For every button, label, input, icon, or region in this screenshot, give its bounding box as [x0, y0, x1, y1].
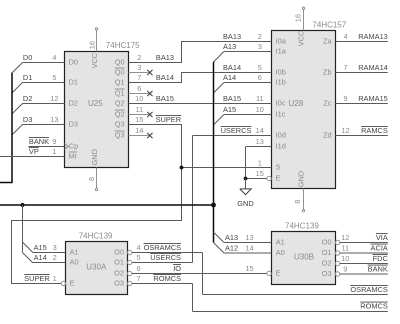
svg-text:Mr: Mr [69, 152, 78, 161]
svg-text:I0c: I0c [276, 99, 286, 108]
svg-text:Q2: Q2 [115, 99, 125, 108]
svg-text:Q0: Q0 [115, 68, 125, 77]
svg-text:RAMCS: RAMCS [361, 126, 388, 135]
svg-text:11: 11 [135, 105, 143, 114]
svg-text:13: 13 [50, 115, 58, 124]
svg-text:ROMCS: ROMCS [153, 274, 181, 283]
svg-text:O1: O1 [114, 258, 124, 267]
svg-text:7: 7 [344, 63, 348, 72]
svg-text:VIA: VIA [376, 233, 388, 242]
svg-text:I0a: I0a [276, 37, 287, 46]
svg-text:12: 12 [341, 233, 349, 242]
svg-text:A0: A0 [70, 258, 79, 267]
svg-text:D3: D3 [23, 115, 32, 124]
svg-text:Q3: Q3 [115, 120, 125, 129]
svg-text:12: 12 [50, 94, 58, 103]
svg-text:5: 5 [136, 253, 140, 262]
svg-text:D0: D0 [23, 53, 32, 62]
svg-text:14: 14 [135, 126, 143, 135]
svg-text:ACIA: ACIA [371, 244, 388, 253]
svg-text:I1d: I1d [276, 142, 286, 151]
svg-text:Zc: Zc [323, 99, 332, 108]
svg-text:8: 8 [293, 200, 302, 204]
svg-text:2: 2 [137, 53, 141, 62]
svg-text:3: 3 [53, 243, 57, 252]
svg-text:15: 15 [256, 169, 264, 178]
svg-text:A15: A15 [223, 105, 236, 114]
svg-text:O0: O0 [322, 238, 332, 247]
svg-text:ROMCS: ROMCS [360, 302, 388, 311]
svg-text:D2: D2 [69, 99, 78, 108]
svg-text:3: 3 [137, 63, 141, 72]
svg-text:A14: A14 [34, 253, 47, 262]
svg-text:A12: A12 [225, 244, 238, 253]
svg-text:74HC139: 74HC139 [79, 231, 113, 240]
svg-text:I1c: I1c [276, 110, 286, 119]
svg-text:I0b: I0b [276, 68, 286, 77]
svg-text:GND: GND [237, 199, 253, 208]
svg-text:D0: D0 [69, 58, 78, 67]
svg-text:E: E [276, 174, 281, 183]
svg-text:A14: A14 [223, 73, 236, 82]
svg-text:VCC: VCC [297, 30, 306, 46]
svg-text:D2: D2 [23, 94, 32, 103]
svg-text:SUPER: SUPER [156, 115, 181, 124]
svg-text:Q1: Q1 [115, 89, 125, 98]
svg-text:Q0: Q0 [115, 58, 125, 67]
svg-text:SUPER: SUPER [24, 274, 49, 283]
svg-text:U30B: U30B [294, 253, 314, 262]
svg-text:Zd: Zd [323, 131, 332, 140]
svg-text:14: 14 [245, 244, 253, 253]
svg-text:S: S [276, 163, 281, 172]
svg-text:D3: D3 [69, 120, 78, 129]
svg-text:6: 6 [258, 73, 262, 82]
svg-text:Cp: Cp [69, 142, 78, 151]
svg-text:O1: O1 [322, 248, 332, 257]
svg-text:4: 4 [52, 53, 56, 62]
svg-text:5: 5 [52, 73, 56, 82]
svg-text:O2: O2 [114, 269, 124, 278]
svg-text:RAMA13: RAMA13 [358, 32, 388, 41]
svg-text:D1: D1 [23, 73, 32, 82]
svg-text:2: 2 [53, 253, 57, 262]
svg-text:RAMA14: RAMA14 [358, 63, 388, 72]
svg-text:Zb: Zb [323, 68, 332, 77]
svg-text:BA15: BA15 [156, 94, 174, 103]
svg-text:74HC139: 74HC139 [285, 222, 319, 231]
svg-text:9: 9 [343, 265, 347, 274]
svg-text:4: 4 [344, 32, 348, 41]
svg-text:1: 1 [258, 159, 262, 168]
svg-text:1: 1 [52, 147, 56, 156]
svg-text:IO: IO [173, 264, 181, 273]
svg-text:16: 16 [293, 14, 302, 22]
svg-text:74HC175: 74HC175 [106, 41, 140, 50]
svg-text:O2: O2 [322, 259, 332, 268]
svg-text:U30A: U30A [86, 262, 107, 271]
svg-text:O3: O3 [322, 269, 332, 278]
svg-text:I0d: I0d [276, 131, 286, 140]
svg-text:4: 4 [136, 243, 140, 252]
svg-text:VP: VP [29, 147, 39, 156]
svg-text:A0: A0 [276, 248, 285, 257]
svg-text:11: 11 [256, 94, 264, 103]
svg-text:10: 10 [256, 105, 264, 114]
svg-text:Q3: Q3 [115, 131, 125, 140]
svg-text:12: 12 [341, 126, 349, 135]
svg-text:I1a: I1a [276, 47, 287, 56]
svg-text:O3: O3 [114, 279, 124, 288]
svg-text:2: 2 [258, 32, 262, 41]
svg-text:9: 9 [344, 94, 348, 103]
svg-text:16: 16 [88, 41, 97, 49]
svg-text:FDC: FDC [373, 254, 389, 263]
svg-text:BANK: BANK [368, 265, 388, 274]
svg-text:13: 13 [245, 233, 253, 242]
svg-text:7: 7 [136, 274, 140, 283]
svg-text:Za: Za [323, 37, 333, 46]
svg-text:U28: U28 [289, 99, 304, 108]
svg-text:15: 15 [245, 264, 253, 273]
svg-text:OSRAMCS: OSRAMCS [350, 285, 387, 294]
svg-text:USERCS: USERCS [221, 126, 252, 135]
svg-text:BA14: BA14 [156, 73, 174, 82]
svg-text:10: 10 [341, 254, 349, 263]
svg-text:7: 7 [137, 73, 141, 82]
svg-text:RAMA15: RAMA15 [358, 94, 388, 103]
svg-text:BA13: BA13 [156, 53, 174, 62]
svg-text:6: 6 [137, 84, 141, 93]
svg-text:BA15: BA15 [223, 94, 241, 103]
svg-text:10: 10 [135, 94, 143, 103]
svg-text:A1: A1 [70, 248, 79, 257]
svg-text:BANK: BANK [29, 137, 49, 146]
svg-text:BA13: BA13 [223, 32, 241, 41]
svg-text:U25: U25 [88, 99, 103, 108]
svg-text:Q1: Q1 [115, 78, 125, 87]
svg-text:BA14: BA14 [223, 63, 241, 72]
svg-text:1: 1 [53, 274, 57, 283]
svg-text:14: 14 [256, 126, 264, 135]
svg-text:3: 3 [258, 42, 262, 51]
svg-text:Q2: Q2 [115, 110, 125, 119]
svg-text:GND: GND [297, 171, 306, 187]
svg-text:GND: GND [90, 149, 99, 165]
svg-text:O0: O0 [114, 248, 124, 257]
svg-text:A13: A13 [223, 42, 236, 51]
svg-text:A13: A13 [225, 233, 238, 242]
svg-text:13: 13 [256, 137, 264, 146]
svg-text:D1: D1 [69, 78, 78, 87]
svg-text:VCC: VCC [90, 52, 99, 68]
svg-text:E: E [276, 269, 281, 278]
svg-text:74HC157: 74HC157 [312, 21, 346, 30]
svg-text:15: 15 [135, 115, 143, 124]
svg-text:OSRAMCS: OSRAMCS [144, 243, 181, 252]
svg-text:11: 11 [341, 244, 349, 253]
svg-text:5: 5 [258, 63, 262, 72]
svg-text:A1: A1 [276, 238, 285, 247]
svg-text:I1b: I1b [276, 78, 286, 87]
svg-text:E: E [70, 279, 75, 288]
svg-text:USERCS: USERCS [150, 253, 181, 262]
svg-text:8: 8 [87, 177, 96, 181]
svg-text:A15: A15 [34, 243, 47, 252]
svg-text:6: 6 [136, 264, 140, 273]
svg-text:9: 9 [52, 137, 56, 146]
